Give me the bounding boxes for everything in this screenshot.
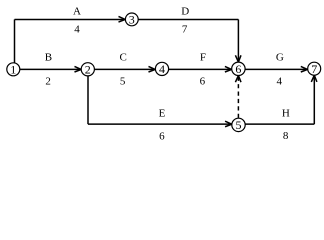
svg-text:5: 5 [236,118,242,132]
wire F (node 4 to node 6) [169,68,232,70]
svg-text:C: C [120,51,127,63]
svg-text:4: 4 [277,76,283,88]
svg-text:7: 7 [311,62,317,76]
node 4 [155,62,168,76]
wire B (node 1 to node 2) [20,68,81,70]
arrowhead into node 3 [119,16,126,22]
wire A horizontal (to node 3) [15,18,125,20]
svg-text:4: 4 [74,24,80,36]
arrowhead into node 4 [149,66,156,72]
wire 1 up-left vertical (1 to A-line) [14,19,16,63]
node 2 [81,62,94,76]
wire 2 down vertical (node 2 to E-line) [87,76,89,124]
wire G (node 6 to node 7) [245,68,307,70]
arrowhead into node 7 bottom [311,75,317,82]
svg-text:G: G [276,52,284,64]
arrowhead into node 6 [225,66,232,72]
svg-text:2: 2 [85,62,91,76]
wire D horizontal (node 3 to corner) [138,18,238,20]
arrowhead into node 7 [301,66,308,72]
svg-text:6: 6 [159,131,165,143]
svg-text:E: E [159,108,166,120]
arrowhead into node 2 [75,66,82,72]
svg-text:1: 1 [10,62,16,76]
svg-text:6: 6 [200,76,206,88]
wire E horizontal (to node 5) [88,123,231,125]
node 7 [308,62,321,76]
svg-text:3: 3 [129,13,135,27]
arrowhead into node 6 bottom [235,76,241,83]
svg-text:2: 2 [45,75,51,87]
svg-text:B: B [45,52,52,64]
svg-text:7: 7 [182,24,188,36]
wire D vertical down to node 6 [237,19,239,61]
wire H vertical up to node 7 [313,76,315,125]
svg-text:4: 4 [159,62,165,76]
svg-text:H: H [282,108,290,120]
node 3 [125,13,138,27]
arrowhead into node 6 top [235,55,241,62]
wire C (node 2 to node 4) [95,68,155,70]
svg-text:6: 6 [235,62,241,76]
svg-text:A: A [73,6,81,18]
svg-text:D: D [181,5,189,17]
node 5 [232,118,245,132]
arrowhead into node 5 [225,121,232,127]
svg-text:F: F [200,52,206,64]
svg-text:5: 5 [120,76,126,88]
svg-text:8: 8 [283,130,289,142]
dashed dummy wire (node 5 to node 6) [237,76,239,118]
node 6 [232,62,245,76]
node 1 [7,62,20,76]
wire H horizontal (node 5 to corner) [245,123,314,125]
